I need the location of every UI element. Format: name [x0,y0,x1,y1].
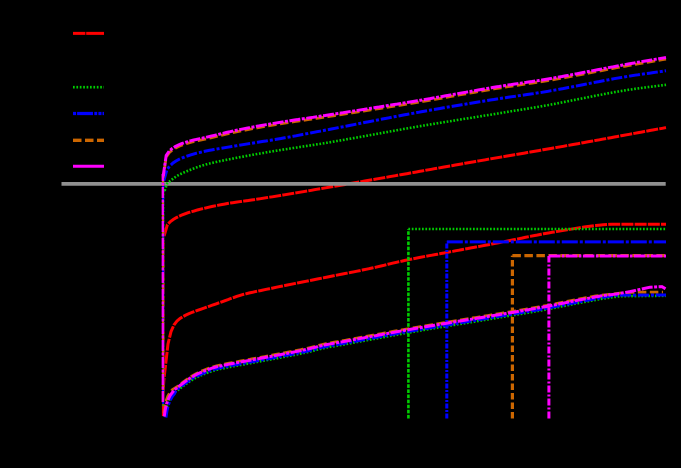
magenta upper curve [162,176,164,402]
gray threshold line [62,182,666,186]
green corner marker: vertical at x=408.4, horizontal at y=229 [407,229,410,419]
legend blue dash-dot sample [73,112,104,115]
orange corner marker: vertical at x=512.4, horizontal at y=255.2 [511,256,514,419]
orange lower bundle curve [164,292,663,413]
green upper curve dotted [162,192,164,406]
green lower bundle curve dotted [165,296,666,417]
blue upper curve dash-dot [162,183,164,404]
legend green dotted sample [73,86,104,89]
orange upper curve (under magenta, offset below) [162,177,164,402]
legend magenta solid sample [73,165,104,168]
red middle curve: rises to plateau y=222 [162,385,164,416]
blue lower bundle curve dash-dot [166,295,666,418]
legend red dashed sample [73,32,104,35]
legend orange dashed sample [73,139,104,142]
blue corner marker: vertical at x=446.8, horizontal at y=241.9 [445,242,448,419]
magenta lower bundle curve [164,287,665,417]
magenta corner marker: vertical at x=548.9, horizontal at y=255.9 [547,256,550,419]
red upper curve: steep rise at x=164 then long climb, dashed [163,240,165,400]
